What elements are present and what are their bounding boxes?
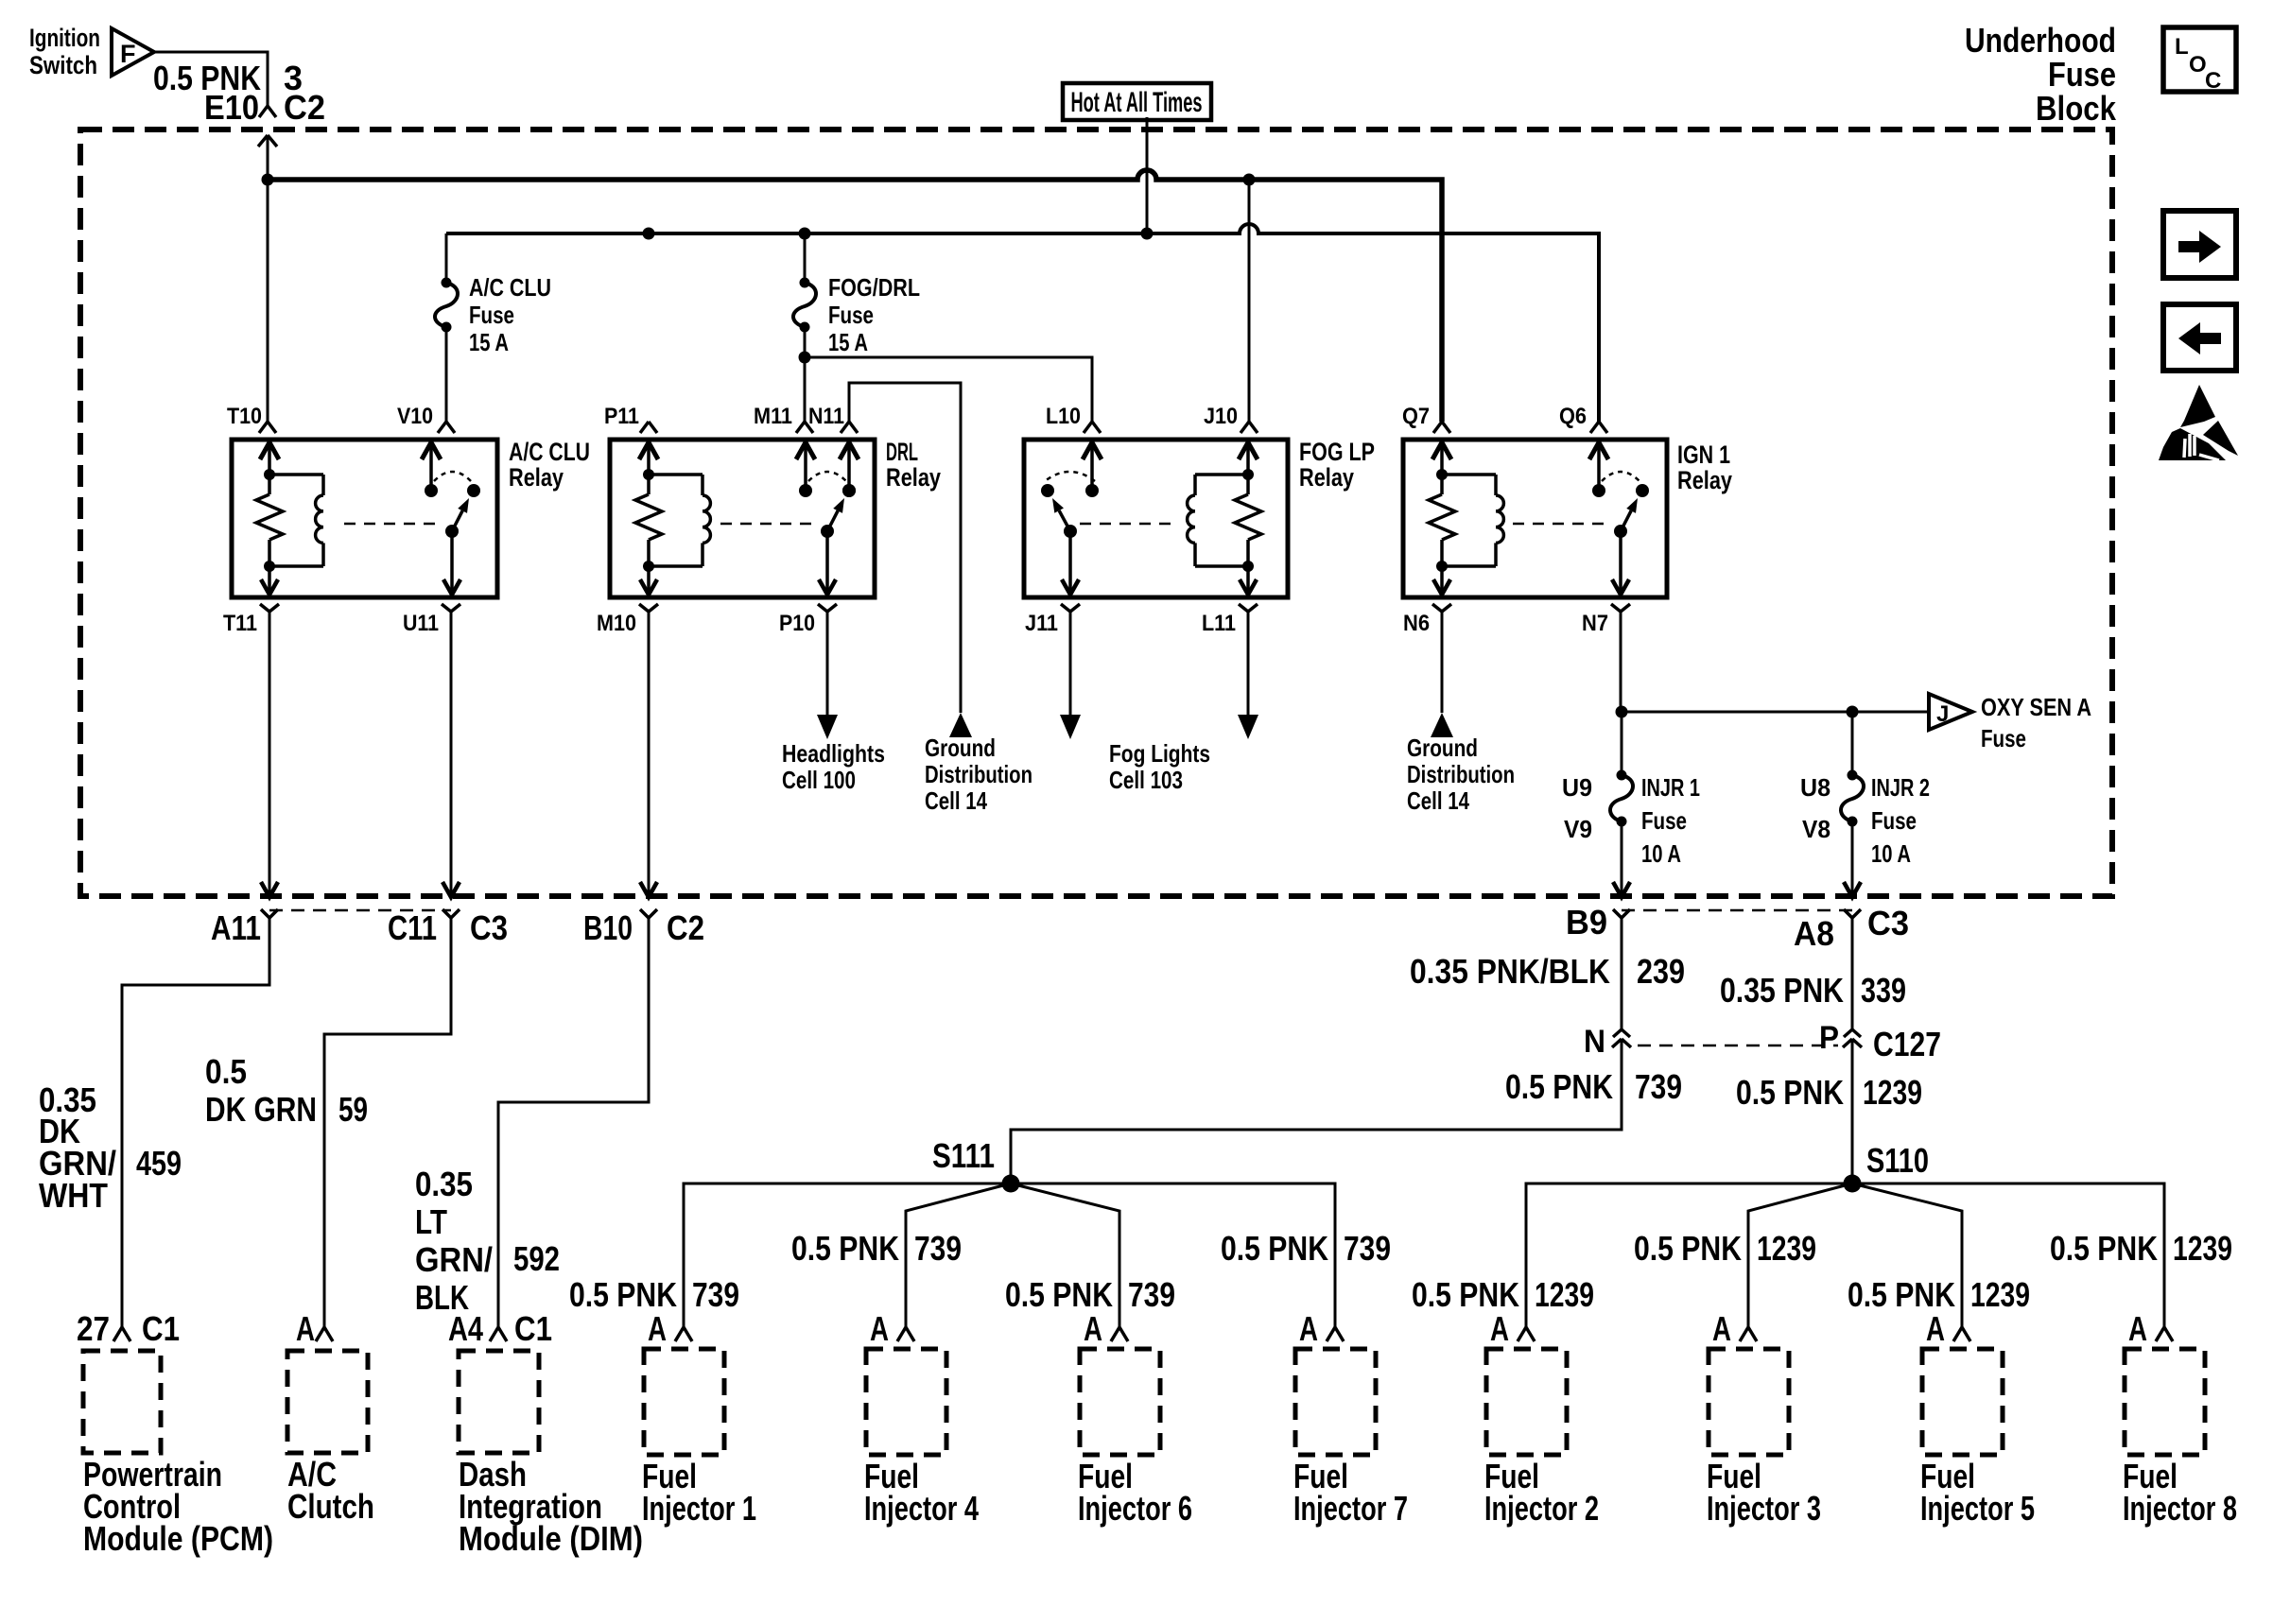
- svg-text:F: F: [120, 40, 136, 68]
- wire E10 to bus: [267, 135, 269, 180]
- thin dashed connector line N-P: [1638, 1045, 1838, 1047]
- svg-text:M11: M11: [754, 404, 792, 429]
- wire bus1 down to J10: [1248, 180, 1251, 422]
- svg-text:Cell 14: Cell 14: [1407, 786, 1469, 815]
- fuel injector 1 box: [644, 1349, 724, 1455]
- svg-text:0.5 PNK: 0.5 PNK: [2050, 1229, 2158, 1268]
- ground distribution triangle (IGN 1 relay coil): [1441, 612, 1444, 713]
- pin N7 connector: [1611, 604, 1621, 612]
- fuel injector 6 box: [1080, 1349, 1160, 1455]
- svg-text:Hot At All Times: Hot At All Times: [1071, 87, 1203, 118]
- svg-text:A11: A11: [211, 908, 261, 947]
- wire P to splice S110: [1851, 1039, 1854, 1183]
- connector pin A fuel injector 8: [2156, 1327, 2164, 1341]
- svg-text:0.5 PNK: 0.5 PNK: [569, 1275, 677, 1314]
- svg-text:A: A: [2128, 1309, 2147, 1348]
- svg-text:Distribution: Distribution: [925, 760, 1032, 788]
- wire bus2 to FOG/DRL fuse: [804, 233, 807, 283]
- svg-text:C2: C2: [667, 908, 704, 947]
- LOC legend box: [2163, 27, 2236, 92]
- svg-text:V10: V10: [397, 404, 433, 429]
- wire U11 to border exit C11: [450, 612, 453, 894]
- svg-text:0.5: 0.5: [205, 1052, 247, 1091]
- svg-text:A/C CLU: A/C CLU: [509, 438, 590, 466]
- svg-text:Clutch: Clutch: [287, 1487, 374, 1526]
- relay DRL box: [610, 440, 875, 597]
- wire J11 to fog lights: [1069, 612, 1072, 733]
- wire A8 to inline connector P: [1851, 917, 1854, 1029]
- svg-text:1239: 1239: [1757, 1229, 1816, 1268]
- svg-text:C2: C2: [284, 88, 325, 127]
- wire B10 to DIM pin A4/C1: [498, 917, 649, 1327]
- pin J10 connector: [1241, 422, 1249, 433]
- relay DRL switch (contacts M11, N11): [847, 440, 851, 491]
- svg-text:B9: B9: [1566, 903, 1607, 942]
- svg-text:27: 27: [77, 1309, 110, 1348]
- svg-text:Injector 5: Injector 5: [1920, 1489, 2035, 1528]
- svg-text:Fuse: Fuse: [828, 301, 874, 329]
- svg-text:459: 459: [136, 1144, 182, 1183]
- svg-text:Module (DIM): Module (DIM): [459, 1519, 643, 1558]
- wire INJR 1 fuse to border exit B9: [1621, 821, 1623, 894]
- svg-text:J10: J10: [1204, 404, 1238, 429]
- wire S111 to fuel injector 7: [1011, 1183, 1335, 1327]
- svg-text:A: A: [648, 1309, 667, 1348]
- svg-text:M10: M10: [597, 611, 636, 636]
- pin V10 connector: [438, 422, 446, 433]
- wire Hot At All Times down to bus 2: [1146, 117, 1149, 233]
- wire S111 to fuel injector 6: [1011, 1183, 1119, 1327]
- pin T10 connector: [259, 422, 268, 433]
- wire C11 to A/C clutch pin A: [324, 917, 451, 1327]
- svg-text:Underhood: Underhood: [1965, 21, 2116, 60]
- wire N to splice S111: [1011, 1039, 1622, 1183]
- svg-text:C127: C127: [1873, 1025, 1941, 1063]
- svg-text:Fuse: Fuse: [469, 301, 514, 329]
- powertrain control module box: [83, 1351, 161, 1453]
- svg-text:Relay: Relay: [1677, 466, 1732, 494]
- svg-text:V8: V8: [1802, 815, 1831, 843]
- svg-text:Fuse: Fuse: [1981, 724, 2026, 752]
- svg-text:A: A: [1926, 1309, 1945, 1348]
- thin dashed connector line A11-C11: [269, 909, 451, 912]
- fuel injector 3 box: [1709, 1349, 1789, 1455]
- svg-text:0.5 PNK: 0.5 PNK: [791, 1229, 899, 1268]
- svg-text:A: A: [296, 1309, 315, 1348]
- relay DRL coil: [647, 440, 651, 494]
- inline connector P / C127: [1844, 1029, 1852, 1037]
- svg-text:10 A: 10 A: [1641, 839, 1681, 868]
- relay FOG LP actuation dashed link: [1080, 523, 1178, 526]
- svg-text:15 A: 15 A: [469, 328, 509, 356]
- junction dot bus2 at FOG/DRL fuse: [799, 228, 811, 240]
- wire INJR 2 fuse to border exit A8/C3: [1851, 821, 1854, 894]
- pin Q7 connector: [1433, 422, 1442, 433]
- ground distribution triangle (DRL relay coil): [949, 713, 972, 737]
- svg-text:Q6: Q6: [1559, 404, 1587, 429]
- svg-text:U8: U8: [1800, 773, 1831, 802]
- fuse FOG/DRL 15A: [800, 278, 810, 288]
- svg-text:N6: N6: [1403, 611, 1430, 636]
- wire P10 to headlights: [826, 612, 829, 733]
- wire L11 to fog lights: [1247, 612, 1250, 733]
- svg-text:OXY SEN A: OXY SEN A: [1981, 693, 2091, 721]
- svg-text:0.35 PNK/BLK: 0.35 PNK/BLK: [1410, 952, 1610, 991]
- svg-text:A: A: [1299, 1309, 1318, 1348]
- connector pin A fuel injector 4: [897, 1327, 906, 1341]
- svg-text:P10: P10: [779, 611, 815, 636]
- svg-text:Cell 14: Cell 14: [925, 786, 987, 815]
- svg-text:Block: Block: [2036, 89, 2117, 128]
- wire N11 to ground distribution: [849, 383, 961, 713]
- svg-text:FOG/DRL: FOG/DRL: [828, 273, 920, 302]
- wire S110 to fuel injector 8: [1852, 1183, 2164, 1327]
- svg-text:L11: L11: [1202, 611, 1236, 636]
- svg-text:739: 739: [914, 1229, 962, 1268]
- ESD sensitivity symbol: [2180, 385, 2215, 427]
- wire T10 from bus1: [267, 180, 269, 422]
- underhood fuse block dashed outline: [80, 130, 2112, 896]
- svg-text:739: 739: [1344, 1229, 1391, 1268]
- svg-text:O: O: [2189, 52, 2207, 78]
- svg-text:S111: S111: [932, 1136, 995, 1175]
- a/c clutch box: [287, 1351, 368, 1453]
- relay FOG LP coil (J10/L11): [1246, 440, 1250, 494]
- svg-text:U9: U9: [1562, 773, 1592, 802]
- svg-text:INJR 1: INJR 1: [1641, 773, 1700, 802]
- connector pin A fuel injector 7: [1327, 1327, 1335, 1341]
- svg-text:C1: C1: [142, 1309, 180, 1348]
- svg-text:Fuse: Fuse: [1871, 806, 1917, 835]
- fuel injector 7 box: [1295, 1349, 1376, 1455]
- svg-text:0.5 PNK: 0.5 PNK: [1848, 1275, 1955, 1314]
- svg-text:N11: N11: [808, 404, 844, 429]
- splice S111: [1002, 1175, 1020, 1193]
- svg-text:T10: T10: [227, 404, 262, 429]
- relay A/C CLU box: [232, 440, 497, 597]
- svg-text:A: A: [1712, 1309, 1731, 1348]
- svg-text:Fuse: Fuse: [1641, 806, 1687, 835]
- dash integration module box: [459, 1351, 539, 1453]
- svg-text:339: 339: [1861, 971, 1906, 1010]
- wire bus2 to A/C CLU fuse: [445, 233, 448, 283]
- svg-text:Ground: Ground: [1407, 734, 1478, 762]
- inline connector N / C127: [1613, 1029, 1622, 1037]
- fuel injector 2 box: [1486, 1349, 1567, 1455]
- pin M10 connector: [639, 604, 649, 612]
- svg-text:N: N: [1584, 1024, 1605, 1060]
- svg-text:Injector 2: Injector 2: [1484, 1489, 1599, 1528]
- svg-text:C: C: [2205, 68, 2221, 94]
- svg-text:Injector 1: Injector 1: [642, 1489, 756, 1528]
- svg-text:FOG LP: FOG LP: [1299, 438, 1375, 466]
- svg-text:0.5 PNK: 0.5 PNK: [1005, 1275, 1113, 1314]
- svg-text:0.5 PNK: 0.5 PNK: [1412, 1275, 1519, 1314]
- svg-text:V9: V9: [1564, 815, 1592, 843]
- svg-text:LT: LT: [415, 1202, 447, 1241]
- svg-text:239: 239: [1637, 952, 1685, 991]
- svg-text:1239: 1239: [2173, 1229, 2232, 1268]
- wire A11 to PCM pin 27/C1: [122, 917, 269, 1327]
- svg-text:739: 739: [1635, 1067, 1682, 1106]
- relay IGN 1 actuation dashed link: [1513, 523, 1609, 526]
- svg-text:DK GRN: DK GRN: [205, 1090, 317, 1129]
- legend arrow right box: [2163, 211, 2236, 278]
- svg-text:A: A: [1084, 1309, 1102, 1348]
- fuse A/C CLU 15A: [442, 278, 452, 288]
- svg-text:Cell 100: Cell 100: [782, 766, 856, 794]
- svg-text:A: A: [870, 1309, 889, 1348]
- svg-text:Injector 4: Injector 4: [864, 1489, 979, 1528]
- svg-text:Fuse: Fuse: [2048, 55, 2116, 94]
- svg-text:0.5 PNK: 0.5 PNK: [1736, 1073, 1844, 1112]
- wire T11 to border exit A11: [269, 612, 271, 894]
- connector pin A fuel injector 5: [1953, 1327, 1962, 1341]
- wire N7 to injector fuses and oxy sen a feed: [1620, 612, 1622, 712]
- wire S110 to fuel injector 3: [1748, 1183, 1852, 1327]
- svg-text:A8: A8: [1794, 914, 1834, 953]
- svg-text:IGN 1: IGN 1: [1677, 441, 1730, 469]
- bus line 1 (hot feed) with hop over hot-at-all-times drop: [268, 170, 1442, 422]
- svg-text:Distribution: Distribution: [1407, 760, 1515, 788]
- svg-text:0.35: 0.35: [415, 1165, 473, 1203]
- svg-text:1239: 1239: [1535, 1275, 1594, 1314]
- svg-text:J11: J11: [1025, 611, 1058, 636]
- splice S110: [1844, 1175, 1862, 1193]
- svg-text:P11: P11: [604, 404, 639, 429]
- svg-text:DRL: DRL: [886, 438, 918, 466]
- connector pin A fuel injector 6: [1111, 1327, 1119, 1341]
- relay FOG LP switch (L10/J11): [1090, 440, 1094, 491]
- svg-text:N7: N7: [1582, 611, 1608, 636]
- svg-text:L: L: [2175, 34, 2189, 60]
- svg-text:S110: S110: [1866, 1141, 1929, 1180]
- wire S110 to fuel injector 5: [1852, 1183, 1962, 1327]
- svg-text:0.5 PNK: 0.5 PNK: [1505, 1067, 1613, 1106]
- junction dot bus1 at E10 wire: [262, 174, 274, 186]
- wire S111 to fuel injector 4: [906, 1183, 1011, 1327]
- svg-text:Ignition: Ignition: [29, 24, 100, 52]
- svg-text:739: 739: [1128, 1275, 1175, 1314]
- relay IGN 1 switch (Q6/N7): [1597, 440, 1601, 491]
- svg-text:C1: C1: [514, 1309, 552, 1348]
- svg-text:C11: C11: [388, 908, 437, 947]
- wire ignition switch to E10: [154, 52, 268, 106]
- thin dashed connector line B9-C3: [1622, 909, 1852, 912]
- fuel injector 5 box: [1922, 1349, 2003, 1455]
- relay A/C CLU actuation dashed link: [344, 523, 442, 526]
- off-page triangle J to OXY SEN A fuse: [1929, 694, 1972, 730]
- border exits with connector forks: [261, 882, 278, 897]
- wire A/C CLU fuse to V10: [445, 327, 448, 422]
- svg-text:A/C CLU: A/C CLU: [469, 273, 551, 302]
- junction dot bus1 at J10 drop: [1243, 174, 1256, 186]
- pin Q6 connector: [1590, 422, 1599, 433]
- wire B9 to inline connector N: [1621, 917, 1623, 1029]
- svg-text:739: 739: [692, 1275, 739, 1314]
- svg-text:10 A: 10 A: [1871, 839, 1911, 868]
- svg-text:Relay: Relay: [1299, 463, 1354, 492]
- svg-text:Injector 6: Injector 6: [1078, 1489, 1192, 1528]
- relay A/C CLU switch: [429, 440, 433, 491]
- svg-text:Module (PCM): Module (PCM): [83, 1519, 273, 1558]
- svg-text:Headlights: Headlights: [782, 739, 885, 768]
- relay FOG LP box: [1024, 440, 1288, 597]
- relay IGN 1 box: [1403, 440, 1667, 597]
- wire to INJR 1 fuse: [1621, 712, 1623, 775]
- wire S111 to fuel injector 1: [684, 1183, 1011, 1327]
- svg-text:59: 59: [338, 1090, 368, 1129]
- connector pin A fuel injector 3: [1740, 1327, 1748, 1341]
- svg-text:Fog Lights: Fog Lights: [1109, 739, 1210, 768]
- wire FOG/DRL fuse to M11 and L10: [804, 327, 807, 422]
- svg-text:B10: B10: [583, 908, 633, 947]
- svg-text:A: A: [1490, 1309, 1509, 1348]
- svg-text:U11: U11: [403, 611, 439, 636]
- svg-text:Switch: Switch: [29, 51, 97, 79]
- fuel injector 8 box: [2125, 1349, 2205, 1455]
- pin P10 connector: [818, 604, 827, 612]
- bus line 2 with hop over J10 wire: [446, 224, 1599, 422]
- wire S110 to fuel injector 2: [1526, 1183, 1852, 1327]
- fuse INJR 1 10A (U9/V9): [1617, 770, 1627, 781]
- relay IGN 1 coil (Q7/N6): [1440, 440, 1444, 494]
- svg-text:L10: L10: [1046, 404, 1081, 429]
- svg-text:Q7: Q7: [1402, 404, 1430, 429]
- wire to INJR 2 fuse: [1851, 712, 1854, 775]
- svg-text:C3: C3: [1867, 904, 1909, 942]
- svg-text:A4: A4: [448, 1309, 483, 1348]
- svg-text:0.5 PNK: 0.5 PNK: [1634, 1229, 1742, 1268]
- svg-text:0.5 PNK: 0.5 PNK: [1221, 1229, 1328, 1268]
- svg-text:15 A: 15 A: [828, 328, 868, 356]
- pin T11 connector: [260, 604, 269, 612]
- pin M11 connector: [796, 422, 805, 433]
- svg-text:INJR 2: INJR 2: [1871, 773, 1930, 802]
- junction dot bus2 at P11: [643, 228, 655, 240]
- svg-text:T11: T11: [223, 611, 257, 636]
- svg-text:Relay: Relay: [509, 463, 564, 492]
- svg-text:WHT: WHT: [39, 1176, 108, 1215]
- svg-text:E10: E10: [204, 88, 259, 127]
- fuse INJR 2 10A (U8/V8): [1848, 770, 1858, 781]
- pin U11 connector: [442, 604, 451, 612]
- svg-text:0.35 PNK: 0.35 PNK: [1720, 971, 1844, 1010]
- svg-text:Relay: Relay: [886, 463, 941, 492]
- pin P11 connector: [640, 422, 649, 433]
- svg-text:592: 592: [513, 1239, 560, 1278]
- pin J11 connector: [1061, 604, 1070, 612]
- pin L10 connector: [1084, 422, 1092, 433]
- relay DRL actuation dashed link: [720, 523, 816, 526]
- Hot At All Times box: [1063, 83, 1211, 120]
- svg-text:Cell 103: Cell 103: [1109, 766, 1183, 794]
- legend arrow left box: [2163, 304, 2236, 371]
- svg-text:1239: 1239: [1970, 1275, 2030, 1314]
- svg-text:1239: 1239: [1863, 1073, 1922, 1112]
- pin L11 connector: [1239, 604, 1248, 612]
- pin N6 connector: [1432, 604, 1442, 612]
- connector pin A fuel injector 2: [1518, 1327, 1526, 1341]
- svg-text:C3: C3: [470, 908, 508, 947]
- relay A/C CLU coil: [268, 440, 271, 494]
- svg-text:Injector 3: Injector 3: [1707, 1489, 1821, 1528]
- svg-text:J: J: [1936, 701, 1949, 727]
- svg-text:GRN/: GRN/: [415, 1240, 493, 1279]
- svg-text:P: P: [1819, 1020, 1839, 1056]
- connector pin A fuel injector 1: [675, 1327, 684, 1341]
- svg-text:Ground: Ground: [925, 734, 996, 762]
- svg-text:Injector 8: Injector 8: [2123, 1489, 2237, 1528]
- fuel injector 4 box: [866, 1349, 946, 1455]
- ignition switch off-page triangle F: [112, 28, 154, 76]
- connector E10-C2 at fuse block border: [259, 106, 268, 117]
- svg-text:Injector 7: Injector 7: [1293, 1489, 1408, 1528]
- pin N11 connector: [841, 422, 849, 433]
- wire M10 to border exit B10: [648, 612, 651, 894]
